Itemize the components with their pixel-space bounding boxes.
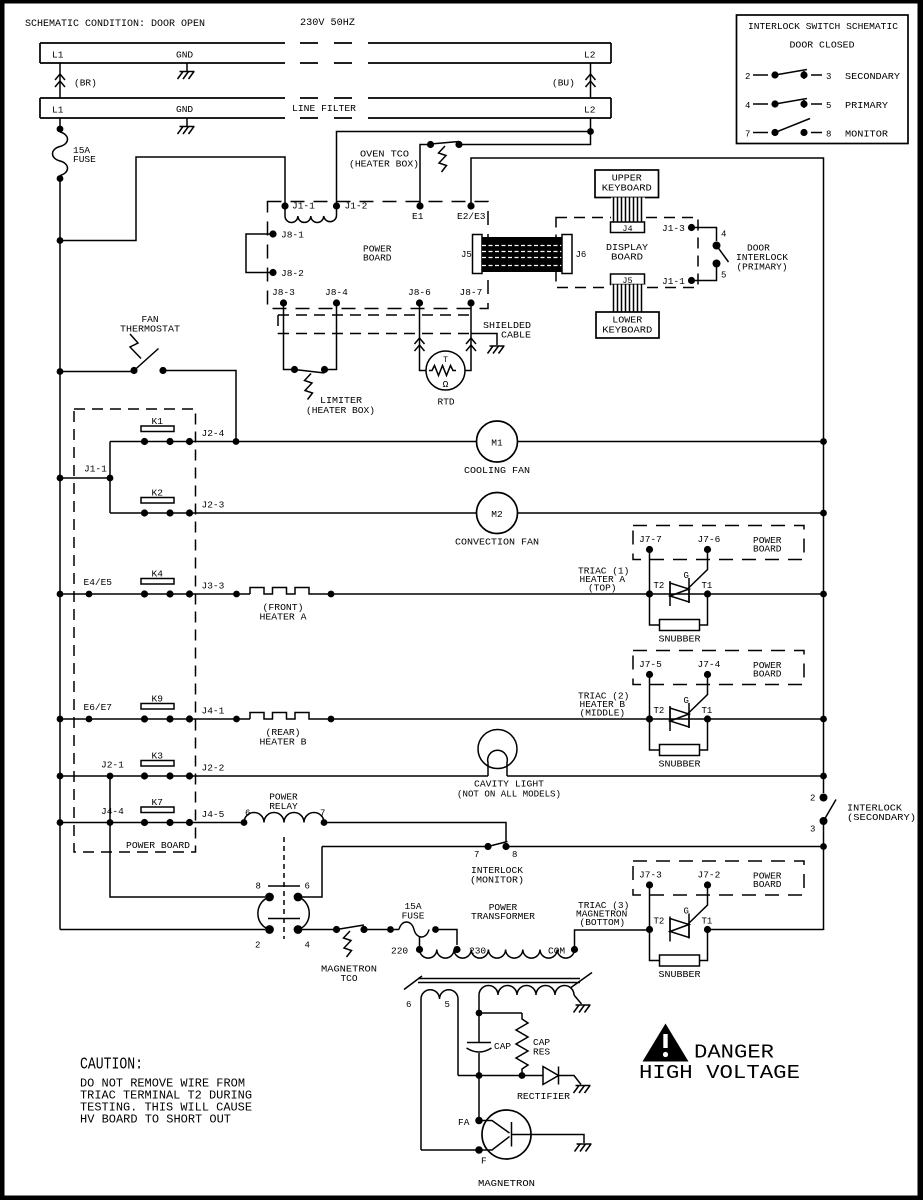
svg-text:(PRIMARY): (PRIMARY) [737,262,788,273]
wire + heating element: heater A row [60,588,824,595]
svg-text:T1: T1 [702,581,713,591]
svg-text:T2: T2 [654,917,665,927]
svg-text:J6: J6 [576,250,587,260]
svg-text:SNUBBER: SNUBBER [659,759,701,770]
svg-text:8: 8 [512,850,517,860]
svg-text:M2: M2 [491,509,503,520]
svg-text:6: 6 [305,882,310,892]
RTD sensor [426,351,465,408]
wire: HV node row [458,1072,543,1079]
motor M2 convection fan [477,493,518,534]
svg-text:J4-4: J4-4 [101,806,124,817]
svg-text:KEYBOARD: KEYBOARD [602,325,652,336]
ground symbol (bar 1 GND) [178,63,195,79]
svg-text:J7-3: J7-3 [639,870,662,881]
snubber network 3 [650,930,708,981]
svg-text:(BR): (BR) [74,78,97,89]
svg-text:(HEATER BOX): (HEATER BOX) [349,159,419,170]
switch: interlock monitor (closed, door open) [298,842,824,898]
svg-text:J1-1: J1-1 [292,201,315,212]
svg-text:TCO: TCO [340,973,357,984]
svg-text:J7-4: J7-4 [698,659,721,670]
relay K7 [141,797,193,826]
svg-text:RELAY: RELAY [269,801,298,812]
transformer core [404,973,592,990]
connector J8-4 [325,287,348,307]
svg-text:BOARD: BOARD [753,879,782,890]
svg-text:LINE FILTER: LINE FILTER [292,103,356,114]
svg-text:8: 8 [826,130,831,140]
svg-text:J2-2: J2-2 [202,763,225,774]
svg-text:SNUBBER: SNUBBER [659,969,701,980]
junction: fan thermostat riser [233,438,240,445]
svg-text:J2-3: J2-3 [202,500,225,511]
relay K2 [141,488,193,517]
svg-text:RES: RES [533,1047,550,1058]
svg-text:(MIDDLE): (MIDDLE) [580,708,626,719]
terminal F [475,1146,487,1166]
svg-text:4: 4 [305,941,310,951]
svg-text:J8-3: J8-3 [272,287,295,298]
relay K1 [141,416,193,445]
power board triac box 1 dashed [633,526,804,560]
svg-text:FA: FA [458,1117,470,1128]
svg-text:INTERLOCK SWITCH SCHEMATIC: INTERLOCK SWITCH SCHEMATIC [748,21,898,32]
riser: J2-1/J4-4 to door interlock [110,776,265,897]
thermal switch: LIMITER (heater box) [284,303,376,416]
upper keyboard [595,170,659,198]
svg-text:BOARD: BOARD [753,544,782,555]
svg-text:MONITOR: MONITOR [845,129,888,140]
svg-text:E1: E1 [412,211,424,222]
svg-text:T: T [443,356,448,365]
svg-text:3: 3 [826,72,831,82]
snubber network 1 [650,594,708,645]
svg-text:8: 8 [256,882,261,892]
svg-text:TRANSFORMER: TRANSFORMER [471,911,535,922]
svg-text:2: 2 [255,941,260,951]
svg-text:5: 5 [445,1000,450,1010]
wire: K1 row (cooling fan circuit) [110,441,824,443]
transformer primary winding 220/230/COM [391,936,578,958]
relay K3 [141,751,193,780]
connector J1-1 (display) [662,276,695,287]
svg-text:4: 4 [721,230,726,240]
switch: interlock secondary (open) [810,442,916,931]
legend switch 7-8 monitor (open) [745,119,888,140]
svg-text:J7-2: J7-2 [698,870,721,881]
svg-text:T1: T1 [702,706,713,716]
triac Q1 [646,550,712,607]
wire L2 drop bar1 to line filter [586,63,596,98]
svg-text:(MONITOR): (MONITOR) [470,875,524,886]
svg-text:BOARD: BOARD [363,253,392,264]
svg-text:J7-5: J7-5 [639,659,662,670]
svg-text:230: 230 [469,946,486,957]
svg-text:L1: L1 [52,50,64,61]
svg-text:J4: J4 [622,224,632,234]
capacitor CAP [467,1013,512,1076]
legend switch 2-3 secondary (closed) [745,70,900,83]
connector J6 (display board side) [562,235,586,274]
junction: right bus M1 row [820,438,827,445]
legend switch 4-5 primary (closed) [745,99,888,112]
wire: branch to power board J1-1 [57,157,285,244]
wire: J8-6 down to RTD [415,303,427,371]
svg-text:COM: COM [548,946,565,957]
terminal E1 [412,202,424,222]
svg-text:MAGNETRON: MAGNETRON [478,1178,535,1189]
connector J5 (display board bottom) [611,274,645,286]
node: HV winding / cap junction [476,995,483,1016]
transformer HV winding [479,986,591,1013]
svg-text:L1: L1 [52,105,64,116]
switch assembly: door interlock (physical) [255,837,310,951]
svg-text:J1-3: J1-3 [662,223,685,234]
connector J1-1 [281,201,315,212]
junction: right bus M2 row [820,510,827,517]
terminal J7-4 [698,659,721,678]
svg-text:5: 5 [826,101,831,111]
svg-text:HEATER B: HEATER B [260,737,307,748]
svg-text:E2/E3: E2/E3 [457,211,486,222]
svg-text:J8-4: J8-4 [325,287,348,298]
svg-text:G: G [684,571,689,581]
svg-text:T1: T1 [702,917,713,927]
svg-text:E4/E5: E4/E5 [84,577,113,588]
power board (relay section) dashed outline [74,409,196,852]
svg-text:J8-6: J8-6 [408,287,431,298]
svg-text:FUSE: FUSE [402,911,425,922]
svg-text:Ω: Ω [443,379,449,390]
ribbon cable J5 to lower keyboard [611,285,645,313]
svg-text:L2: L2 [584,50,596,61]
terminal E2/E3 [457,202,486,222]
ribbon cable upper keyboard to J4 [611,198,645,223]
svg-text:2: 2 [745,72,750,82]
terminal J7-3 [639,870,662,889]
relay K9 [141,694,193,723]
wire: fuse to 230 tap [436,930,458,946]
triac Q2 [646,675,712,732]
switch: door interlock primary (open) [692,228,729,281]
svg-text:(BU): (BU) [552,78,575,89]
svg-text:(SECONDARY): (SECONDARY) [847,812,916,823]
svg-text:J8-7: J8-7 [460,287,483,298]
svg-text:220: 220 [391,946,408,957]
warning triangle [643,1024,689,1062]
svg-text:CAP: CAP [494,1041,511,1052]
svg-text:J2-4: J2-4 [202,428,225,439]
transformer filament winding (6,5) [406,990,458,1150]
svg-text:J3-3: J3-3 [202,581,225,592]
interlock switch schematic legend box [737,15,909,144]
svg-text:6: 6 [406,1000,411,1010]
fuse 15A (transformer primary) [399,901,439,937]
svg-text:HEATER A: HEATER A [260,612,307,623]
svg-text:6: 6 [245,809,250,819]
wire: filament leg to F [421,1149,479,1151]
svg-text:(HEATER BOX): (HEATER BOX) [306,405,375,416]
svg-text:CABLE: CABLE [501,330,531,341]
connector J5 (display cable, power board side) [461,235,482,274]
ribbon cable J5 to J6 [482,237,562,272]
svg-text:L2: L2 [584,105,596,116]
fuse 15A (left bus) [53,118,97,182]
svg-text:7: 7 [474,850,479,860]
wire: K2 row (convection fan circuit) [110,512,824,514]
svg-text:PRIMARY: PRIMARY [845,100,888,111]
motor M1 cooling fan [477,421,518,462]
wire: contact 4 to magnetron TCO [298,929,337,931]
relay K4 [141,569,193,598]
svg-text:J4-1: J4-1 [202,706,225,717]
terminal J7-5 [639,659,662,678]
ground symbol (line filter GND) [178,118,195,134]
lower keyboard [596,312,659,338]
svg-text:(NOT ON ALL MODELS): (NOT ON ALL MODELS) [457,789,561,800]
wire: J1-1 feed and riser [57,442,114,514]
triac Q3 [646,885,712,942]
connector J8-6 [408,287,431,307]
caution note [80,1056,252,1127]
svg-text:J5: J5 [461,250,472,260]
svg-text:4: 4 [745,101,750,111]
svg-text:SCHEMATIC CONDITION: DOOR OPEN: SCHEMATIC CONDITION: DOOR OPEN [25,19,205,30]
svg-text:DANGER: DANGER [694,1042,774,1064]
power board triac box 3 dashed [633,861,804,895]
svg-text:J1-1: J1-1 [84,464,107,475]
terminal J7-2 [698,870,721,889]
svg-text:GND: GND [176,50,193,61]
connector J1-2 [333,201,368,212]
wire: J8-7 down to RTD [465,303,476,371]
svg-text:HIGH VOLTAGE: HIGH VOLTAGE [639,1062,800,1084]
shielded cable boundary (dashed) [278,315,505,354]
svg-text:M1: M1 [491,438,503,449]
wire + heating element: heater B row [60,713,824,720]
svg-text:G: G [684,696,689,706]
svg-text:FUSE: FUSE [73,154,96,165]
connector J8-2 [269,268,304,279]
wire: left bus to contact 2 [60,929,265,931]
relay coil: power relay [241,809,328,826]
thermal switch: fan thermostat [57,314,236,442]
wire L1 drop bar1 to line filter [55,63,65,98]
svg-text:CONVECTION FAN: CONVECTION FAN [455,537,539,548]
svg-text:BOARD: BOARD [753,669,782,680]
svg-text:J8-1: J8-1 [281,230,304,241]
wire: triac3 T1 to right bus [708,929,824,930]
wire: J8-1 to J8-2 loop [246,234,273,273]
svg-text:T2: T2 [654,581,665,591]
bleeder resistor CAP RES [479,1013,550,1076]
bus bar L1/GND/L2 (incoming line, top) [40,43,611,63]
wire: left bus L1 vertical [59,178,61,930]
connector J8-7 [460,287,483,307]
power board (main) dashed outline [268,202,489,309]
svg-text:(BOTTOM): (BOTTOM) [580,917,626,928]
diode: rectifier [517,1067,591,1103]
connector J1-3 [662,223,695,234]
svg-text:7: 7 [320,809,325,819]
svg-text:SNUBBER: SNUBBER [659,634,701,645]
svg-text:5: 5 [721,271,726,281]
svg-text:7: 7 [745,130,750,140]
junction: right bus monitor row [820,843,827,850]
lamp: cavity light [478,730,517,777]
svg-text:J4-5: J4-5 [202,809,225,820]
terminal J7-7 [639,534,662,553]
connector J4 [611,222,645,234]
terminal FA [458,1076,483,1129]
svg-text:RECTIFIER: RECTIFIER [517,1091,570,1102]
svg-text:T2: T2 [654,706,665,716]
svg-text:BOARD: BOARD [611,252,643,263]
wire: cavity light row [60,775,824,777]
svg-text:CAUTION:: CAUTION: [80,1056,143,1075]
svg-text:DOOR CLOSED: DOOR CLOSED [790,40,855,51]
thermal cutout: magnetron TCO [321,925,377,984]
svg-text:RTD: RTD [438,397,455,408]
svg-text:SECONDARY: SECONDARY [845,71,900,82]
svg-text:J7-6: J7-6 [698,534,721,545]
svg-text:KEYBOARD: KEYBOARD [602,183,652,194]
inductor (line choke J1-1 to J1-2) [285,206,336,222]
svg-text:(TOP): (TOP) [588,583,617,594]
thermal cutout: OVEN TCO (heater box) [349,141,463,206]
wire: E2/E3 to right bus [471,158,824,442]
power board triac box 2 dashed [633,651,804,685]
svg-text:POWER BOARD: POWER BOARD [126,840,190,851]
svg-text:3: 3 [810,825,815,835]
svg-text:J8-2: J8-2 [281,268,304,279]
wire: power relay row [60,823,506,843]
wire: COM to triac 3 T2 [575,930,647,950]
svg-text:J1-1: J1-1 [662,276,685,287]
display board dashed outline [556,218,698,288]
wire + junction after TCO [364,926,399,933]
svg-text:230V 50HZ: 230V 50HZ [300,18,355,29]
svg-text:2: 2 [810,794,815,804]
connector J8-1 [269,230,304,241]
wire: L2 to J1-2 and oven TCO [337,118,594,206]
svg-text:J2-1: J2-1 [101,760,124,771]
svg-text:THERMOSTAT: THERMOSTAT [120,324,180,335]
snubber network 2 [650,719,708,770]
svg-text:GND: GND [176,104,193,115]
svg-text:G: G [684,907,689,917]
svg-text:J7-7: J7-7 [639,534,662,545]
terminal J7-6 [698,534,721,553]
svg-text:E6/E7: E6/E7 [84,702,113,713]
svg-text:J1-2: J1-2 [345,201,368,212]
svg-text:COOLING FAN: COOLING FAN [464,465,530,476]
line filter bus bar L1/GND/L2 [40,98,611,118]
magnetron tube [479,1110,592,1159]
svg-text:F: F [481,1156,487,1167]
svg-text:HV BOARD TO SHORT OUT: HV BOARD TO SHORT OUT [80,1113,231,1127]
connector J8-3 [272,287,295,307]
